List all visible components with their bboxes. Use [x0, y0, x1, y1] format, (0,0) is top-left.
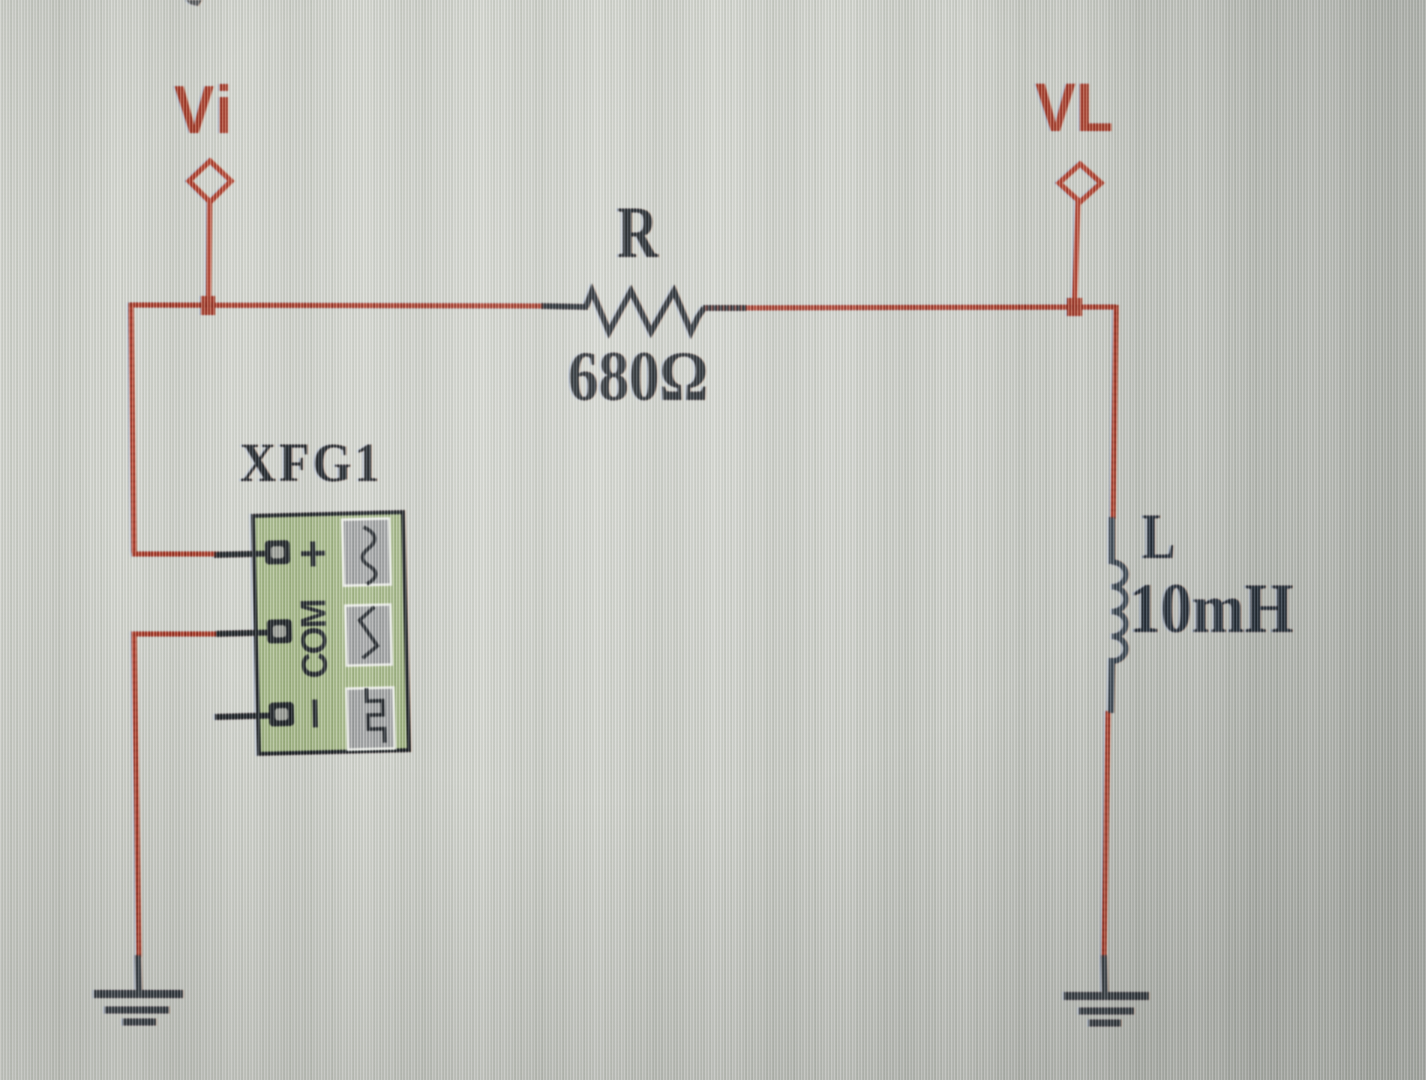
- XFG1 sine button: [342, 519, 391, 586]
- probe VL diamond: [1059, 164, 1101, 202]
- wire: left vertical from top corner down to XFG1 plus terminal: [131, 303, 134, 553]
- svg-text:L: L: [1142, 500, 1175, 573]
- resistor R zigzag body: [586, 291, 704, 332]
- svg-text:XFG1: XFG1: [240, 433, 383, 494]
- ground (right): [1064, 955, 1149, 1023]
- XFG1 pin minus terminal: [269, 702, 295, 727]
- XFG1 pin minus lead: [215, 715, 274, 716]
- function generator XFG1: [210, 512, 409, 755]
- XFG1 pin COM lead: [216, 632, 272, 633]
- wire: red segment to plus pin: [132, 552, 219, 557]
- resistor R leads: [541, 306, 588, 307]
- wire moire dashes (decorative overlay): [129, 305, 1116, 634]
- svg-text:680Ω: 680Ω: [568, 338, 708, 416]
- inductor L coil: [1112, 562, 1126, 661]
- ground (left): [94, 955, 183, 1022]
- probe Vi diamond: [189, 161, 231, 202]
- wire: right vertical from top corner through inductor to ground: [1113, 305, 1116, 519]
- node: Vi junction: [201, 296, 215, 315]
- probe Vi stem: [209, 200, 210, 304]
- artifact: dark mark at top edge: [186, 0, 202, 6]
- svg-text:Vi: Vi: [174, 72, 232, 148]
- svg-text:COM: COM: [292, 598, 335, 679]
- XFG1 minus sign: [312, 699, 318, 727]
- XFG1 square button: [346, 687, 395, 749]
- XFG1 pin plus lead: [214, 554, 270, 555]
- inductor L leads: [1109, 517, 1115, 564]
- svg-text:VL: VL: [1035, 69, 1113, 146]
- wire: top horizontal net Vi-R-VL: [129, 305, 586, 307]
- XFG1 body: [253, 512, 409, 754]
- XFG1 triangle button: [345, 605, 391, 666]
- XFG1 plus sign: [301, 541, 326, 567]
- XFG1 pin COM terminal: [267, 619, 293, 644]
- node: VL junction: [1067, 298, 1082, 316]
- svg-text:R: R: [617, 192, 659, 274]
- probe VL stem: [1075, 200, 1079, 304]
- wire: COM pin to ground, horizontal then vertical: [134, 634, 216, 957]
- XFG1 pin plus terminal: [265, 540, 291, 565]
- svg-text:10mH: 10mH: [1129, 570, 1293, 648]
